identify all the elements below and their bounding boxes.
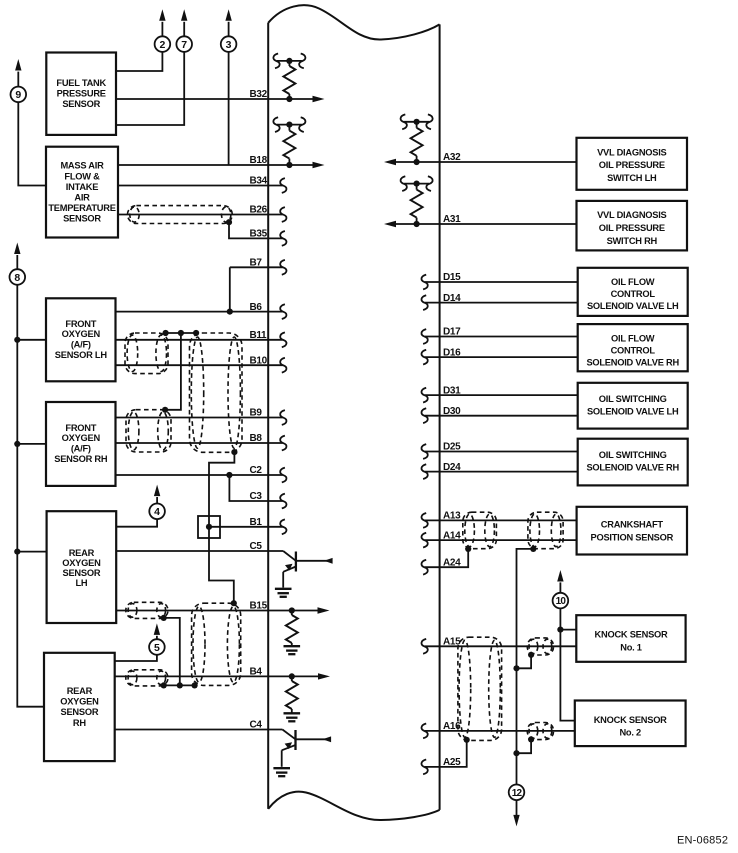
hook B35 [280, 231, 286, 246]
svg-text:SOLENOID VALVE LH: SOLENOID VALVE LH [587, 301, 679, 311]
node B15 shield [161, 615, 167, 621]
svg-text:REAR: REAR [67, 686, 93, 696]
wire knock sensor common to circle 10 [560, 608, 574, 720]
svg-text:EN-06852: EN-06852 [677, 834, 728, 846]
svg-text:FLOW &: FLOW & [64, 171, 100, 181]
wire B26 [118, 214, 283, 216]
svg-text:12: 12 [512, 788, 523, 799]
node bus front RH [14, 441, 20, 447]
svg-text:SENSOR: SENSOR [61, 707, 99, 717]
wire ECM right border [439, 24, 441, 810]
box oil switching solenoid valve LH [578, 383, 688, 429]
box front oxygen sensor LH [46, 298, 116, 381]
svg-text:KNOCK SENSOR: KNOCK SENSOR [595, 630, 668, 640]
svg-text:SOLENOID VALVE RH: SOLENOID VALVE RH [586, 463, 679, 473]
hook A24 [421, 560, 427, 575]
wire ground bus circle 8 down left side [17, 285, 44, 707]
node knock1 shield [528, 652, 534, 658]
wire rear oxygen RH to circle 5 [115, 655, 157, 661]
box VVL diagnosis oil pressure switch RH [577, 201, 688, 251]
wire A13 [425, 519, 577, 521]
resistor A32 pull-up [404, 122, 429, 162]
label oil flow control solenoid valve LH [587, 277, 679, 311]
svg-text:REAR: REAR [69, 548, 95, 558]
svg-text:OIL SWITCHING: OIL SWITCHING [599, 394, 667, 404]
svg-text:OXYGEN: OXYGEN [62, 329, 101, 339]
node knock big shield [464, 737, 470, 743]
svg-text:5: 5 [154, 642, 160, 654]
svg-text:10: 10 [556, 596, 567, 607]
WIRE-END BREAK HOOKS RIGHT [421, 275, 427, 775]
arrow A31 in [384, 221, 396, 227]
box mass air flow sensor [46, 147, 118, 238]
wire fuel tank to circle 2 [116, 52, 162, 71]
wire shield link B11 top [166, 332, 197, 334]
svg-text:KNOCK SENSOR: KNOCK SENSOR [594, 715, 667, 725]
box rear oxygen sensor LH [47, 511, 117, 623]
transistor Q1 (C5 driver) [283, 551, 332, 588]
svg-text:SWITCH LH: SWITCH LH [607, 173, 657, 183]
hook B1 [280, 519, 286, 534]
svg-text:MASS AIR: MASS AIR [60, 161, 104, 171]
hook B9 [280, 410, 286, 425]
wire A16 [425, 730, 575, 732]
arrow B4 out [318, 673, 330, 679]
svg-text:7: 7 [181, 39, 187, 51]
node crank shield 2 [530, 546, 536, 552]
hook A15 [421, 639, 427, 654]
wire C3 branch [229, 475, 282, 501]
node 5 [149, 623, 165, 654]
SIGNAL ARROWS INSIDE ECM [313, 96, 397, 680]
node 8 [9, 243, 25, 285]
svg-text:No. 1: No. 1 [620, 642, 642, 652]
node bus front LH [14, 337, 20, 343]
hook A25 [421, 760, 427, 775]
node drain join 1 [513, 665, 519, 671]
svg-text:(A/F): (A/F) [71, 340, 91, 350]
node 12 [509, 785, 525, 827]
wire bus stub to front oxygen LH [17, 339, 46, 341]
node C2/C3 tee [226, 472, 232, 478]
node knock2 shield [528, 736, 534, 742]
label VVL diagnosis oil pressure switch RH [597, 210, 666, 246]
svg-text:RH: RH [73, 718, 86, 728]
svg-text:VVL DIAGNOSIS: VVL DIAGNOSIS [597, 210, 666, 220]
node 2 [155, 9, 171, 52]
svg-text:OIL PRESSURE: OIL PRESSURE [599, 223, 665, 233]
box crankshaft position sensor [577, 507, 687, 555]
node crank shield 1 [465, 546, 471, 552]
node big shield bottom [231, 449, 237, 455]
svg-text:SOLENOID VALVE LH: SOLENOID VALVE LH [587, 406, 679, 416]
wire rear oxygen LH to circle 4 [116, 519, 157, 527]
svg-text:FRONT: FRONT [65, 319, 96, 329]
wire C2 [116, 474, 283, 476]
hook D16 [421, 350, 427, 365]
shield front oxygen harness (B11-B8) [190, 333, 243, 452]
resistor B32 pull-up [277, 61, 302, 99]
wire A31 [395, 223, 577, 225]
wire B6 [116, 311, 283, 313]
shield knock sensor 1 cable [527, 638, 553, 655]
wire B15 [116, 610, 318, 612]
node B6/B7 tee [227, 309, 233, 315]
wire bus stub to front oxygen RH [17, 443, 46, 445]
resistor B18 pull-up [277, 125, 302, 165]
node shield link b [178, 330, 184, 336]
wire B4 [115, 675, 319, 677]
wire D31 [425, 394, 578, 396]
hook A16 [421, 724, 427, 739]
wire D15 [425, 281, 578, 283]
wire bus stub to rear oxygen LH [17, 551, 46, 553]
wire D25 [425, 451, 578, 453]
label rear oxygen sensor RH [60, 686, 99, 728]
shield crankshaft cable ECM side [463, 512, 497, 549]
wire B11 [116, 339, 283, 341]
svg-text:(A/F): (A/F) [71, 444, 91, 454]
svg-text:OIL SWITCHING: OIL SWITCHING [599, 450, 667, 460]
wire A14 [425, 539, 577, 541]
wire shield link B4 bottom [164, 684, 195, 686]
ground Q1 [275, 589, 292, 597]
wire B6 to B7 riser [229, 267, 231, 311]
hook D31 [421, 388, 427, 403]
resistor A31 pull-up [404, 184, 429, 224]
ground B4 resistor [284, 713, 301, 721]
resistor B4 pull-down [291, 676, 293, 712]
wire B8 [116, 442, 283, 444]
ground B15 resistor [284, 646, 301, 654]
svg-text:POSITION SENSOR: POSITION SENSOR [591, 533, 674, 543]
node 4 [149, 485, 165, 519]
WIRES RIGHT SIDE [395, 162, 578, 785]
box oil flow control solenoid valve LH [578, 268, 688, 316]
node rear drain mid [177, 682, 183, 688]
box knock sensor No.2 [575, 701, 686, 747]
label oil switching solenoid valve RH [586, 450, 679, 473]
wire D16 [425, 356, 578, 358]
hook D14 [421, 295, 427, 310]
hook A14 [421, 533, 427, 548]
arrow B18 out [313, 162, 325, 168]
PULL-UP RESISTORS INSIDE ECM [273, 54, 432, 722]
svg-text:OIL FLOW: OIL FLOW [611, 277, 655, 287]
wire knock sensor 1 upper [560, 629, 576, 631]
hook D17 [421, 329, 427, 344]
svg-text:SWITCH RH: SWITCH RH [607, 236, 658, 246]
svg-text:AIR: AIR [74, 193, 90, 203]
shield front oxygen RH cable [126, 410, 171, 452]
wire B18 [118, 164, 313, 166]
hook C3 [280, 494, 286, 509]
label knock sensor No.2 [594, 715, 667, 738]
svg-text:CRANKSHAFT: CRANKSHAFT [601, 520, 664, 530]
wire B9 [116, 417, 283, 419]
hook A13 [421, 513, 427, 528]
svg-text:4: 4 [154, 506, 160, 518]
svg-text:SENSOR: SENSOR [63, 568, 101, 578]
hook D30 [421, 408, 427, 423]
wire A24 shield drain [425, 549, 468, 567]
svg-text:FRONT: FRONT [65, 423, 96, 433]
svg-text:CONTROL: CONTROL [611, 346, 656, 356]
svg-text:2: 2 [159, 39, 165, 51]
box fuel tank pressure sensor [46, 53, 116, 135]
node 10 [553, 570, 569, 608]
svg-text:TEMPERATURE: TEMPERATURE [48, 203, 115, 213]
ECM body (connector block) [268, 5, 439, 820]
node 9 [10, 59, 26, 102]
hook B11 [280, 332, 286, 347]
wire fuel tank to circle 7 [116, 52, 184, 125]
wire shield drain B15 small shield down [164, 618, 180, 686]
wire D30 [425, 415, 578, 417]
hook B26 [280, 207, 286, 222]
hook B8 [280, 436, 286, 451]
label crankshaft position sensor [591, 520, 674, 543]
wire C5 [116, 550, 283, 552]
node shield link c [193, 330, 199, 336]
wire B1 [209, 526, 283, 528]
WIRES LEFT SIDE [17, 52, 318, 730]
wire ECM bottom torn edge [268, 792, 439, 820]
svg-text:VVL DIAGNOSIS: VVL DIAGNOSIS [597, 147, 666, 157]
svg-text:8: 8 [14, 272, 20, 284]
node front RH shield [162, 407, 168, 413]
arrow A32 in [384, 159, 396, 165]
wire D24 [425, 471, 578, 473]
label oil switching solenoid valve LH [587, 394, 679, 417]
wire crank shield drain to circle 12 [517, 549, 534, 785]
label fuel tank pressure sensor [56, 78, 106, 109]
wire A25 shield drain [425, 740, 467, 767]
shield front oxygen LH cable [125, 333, 168, 374]
shield B26 cable [128, 206, 233, 224]
NUMBERED CONNECTOR CIRCLES [9, 9, 568, 826]
svg-text:LH: LH [75, 578, 87, 588]
svg-text:CONTROL: CONTROL [611, 289, 656, 299]
hook B7 [280, 260, 286, 275]
node bus rear LH [14, 549, 20, 555]
wire B35 shield drain [229, 222, 283, 238]
svg-text:OXYGEN: OXYGEN [62, 433, 101, 443]
label knock sensor No.1 [595, 630, 668, 653]
shield knock sensor 2 cable [527, 723, 553, 740]
svg-text:PRESSURE: PRESSURE [57, 89, 106, 99]
PIN LABELS LEFT [250, 89, 268, 731]
label front oxygen sensor RH [54, 423, 108, 464]
box oil flow control solenoid valve RH [578, 324, 688, 371]
wire shield drain front big shield to B1 joint and rear shield [209, 452, 234, 603]
hook D25 [421, 444, 427, 459]
shield knock harness (A15/A16) [458, 637, 502, 740]
arrow B32 out [313, 96, 325, 102]
wire A32 [395, 161, 577, 163]
svg-text:9: 9 [15, 89, 21, 101]
wire B7 [230, 266, 283, 268]
svg-text:INTAKE: INTAKE [66, 182, 98, 192]
hook C2 [280, 468, 286, 483]
svg-text:OXYGEN: OXYGEN [62, 558, 101, 568]
resistor B15 pull-down [291, 611, 293, 646]
svg-text:OIL PRESSURE: OIL PRESSURE [599, 160, 665, 170]
node knock1 tap [557, 627, 563, 633]
label mass air flow sensor [48, 161, 115, 224]
arrow B15 out [318, 607, 330, 613]
svg-text:OXYGEN: OXYGEN [60, 697, 99, 707]
wire ECM top torn edge [268, 5, 439, 39]
label oil flow control solenoid valve RH [586, 334, 679, 368]
box front oxygen sensor RH [46, 402, 116, 486]
DEVICE BOXES RIGHT [575, 138, 688, 746]
WIRE-END BREAK HOOKS LEFT [280, 178, 286, 534]
hook B6 [280, 304, 286, 319]
SHIELD DRAIN WIRES OXYGEN SENSORS [164, 333, 235, 685]
svg-text:SENSOR LH: SENSOR LH [55, 350, 108, 360]
label VVL diagnosis oil pressure switch LH [597, 147, 666, 183]
wire D14 [425, 302, 578, 304]
joint connector B1 [198, 516, 220, 538]
node rear big shield top [231, 600, 237, 606]
label rear oxygen sensor LH [62, 548, 101, 588]
svg-text:No. 2: No. 2 [619, 728, 641, 738]
node B4 shield [161, 682, 167, 688]
svg-text:FUEL TANK: FUEL TANK [56, 78, 106, 88]
wire shield drain front LH to front RH [165, 333, 181, 410]
wire B10 [116, 364, 283, 366]
hook B34 [280, 178, 286, 193]
svg-text:SOLENOID VALVE RH: SOLENOID VALVE RH [586, 358, 679, 368]
transistor Q2 (C4 driver) [282, 730, 331, 767]
node 3 [221, 9, 237, 52]
node shield link a [163, 330, 169, 336]
node B26 shield drain [226, 219, 232, 225]
hook B10 [280, 358, 286, 373]
shield rear oxygen RH cable (B4) [126, 670, 168, 686]
node 7 [176, 9, 192, 52]
SENSOR BOXES LEFT [44, 53, 118, 762]
node B1 joint [206, 524, 212, 530]
svg-text:3: 3 [226, 39, 232, 51]
wire B32 [116, 98, 313, 100]
PIN LABELS RIGHT [443, 152, 461, 768]
svg-text:SENSOR: SENSOR [62, 99, 100, 109]
box VVL diagnosis oil pressure switch LH [577, 138, 688, 190]
hook D24 [421, 464, 427, 479]
wire B34 [118, 185, 283, 187]
box oil switching solenoid valve RH [578, 439, 688, 486]
node drain join 2 [513, 750, 519, 756]
node rear big shield bottom [192, 682, 198, 688]
shield rear oxygen LH cable (B15) [126, 602, 168, 618]
SHIELDED CABLE SYMBOLS (dashed) [125, 206, 563, 741]
svg-text:SENSOR RH: SENSOR RH [54, 454, 108, 464]
ground Q2 [273, 768, 290, 776]
box rear oxygen sensor RH [44, 653, 115, 761]
wire mass air to circle 3 [228, 52, 230, 165]
svg-text:OIL FLOW: OIL FLOW [611, 334, 655, 344]
wire A15 [425, 645, 577, 647]
label front oxygen sensor LH [55, 319, 108, 360]
wire ECM left border [267, 23, 269, 809]
wire circle 9 to mass air sensor [18, 102, 46, 185]
wire knock 2 shield drain [517, 739, 532, 753]
hook D15 [421, 275, 427, 290]
wire D17 [425, 336, 578, 338]
shield rear oxygen harness (B15/B4) [192, 603, 241, 685]
shield crankshaft cable sensor side [528, 512, 563, 549]
wire knock 1 shield drain [517, 655, 532, 669]
box knock sensor No.1 [576, 615, 685, 662]
wire C4 [115, 729, 283, 731]
svg-text:SENSOR: SENSOR [63, 214, 101, 224]
